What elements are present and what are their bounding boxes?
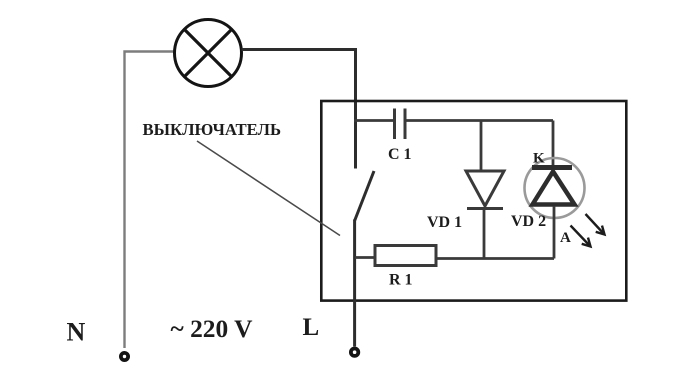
svg-text:VD 2: VD 2 bbox=[511, 213, 546, 230]
svg-text:ВЫКЛЮЧАТЕЛЬ: ВЫКЛЮЧАТЕЛЬ bbox=[143, 120, 282, 139]
svg-text:K: K bbox=[533, 151, 545, 167]
svg-text:N: N bbox=[67, 318, 86, 347]
svg-text:VD 1: VD 1 bbox=[427, 214, 462, 231]
svg-text:~ 220 V: ~ 220 V bbox=[171, 316, 253, 343]
svg-text:C 1: C 1 bbox=[388, 146, 412, 163]
svg-text:L: L bbox=[303, 314, 320, 341]
svg-text:A: A bbox=[560, 230, 571, 246]
svg-text:R 1: R 1 bbox=[389, 272, 413, 289]
